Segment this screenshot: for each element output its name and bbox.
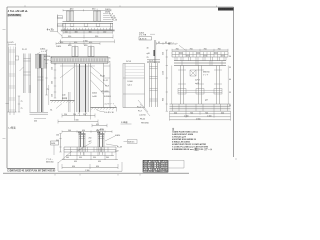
- svg-text:150: 150: [56, 135, 59, 137]
- svg-text:150: 150: [52, 94, 54, 97]
- svg-text:650: 650: [72, 166, 75, 168]
- svg-text:700: 700: [204, 48, 207, 50]
- svg-text:無収縮: 無収縮: [62, 97, 67, 100]
- svg-text:M24: M24: [97, 131, 100, 134]
- svg-text:55: 55: [229, 67, 231, 69]
- svg-text:2 900: 2 900: [83, 40, 88, 42]
- svg-text:GL: GL: [50, 110, 52, 112]
- svg-text:PL-28: PL-28: [117, 146, 122, 148]
- svg-text:450: 450: [96, 124, 99, 126]
- svg-text:450: 450: [60, 42, 63, 44]
- svg-text:1 400: 1 400: [184, 115, 189, 117]
- svg-text:L=450: L=450: [92, 96, 97, 98]
- svg-text:2 800: 2 800: [196, 118, 201, 120]
- svg-text:D-500: D-500: [128, 81, 133, 83]
- svg-text:350: 350: [79, 157, 82, 159]
- svg-text:M24×450: M24×450: [46, 161, 54, 164]
- svg-text:250: 250: [64, 114, 67, 116]
- svg-text:450: 450: [89, 42, 92, 44]
- svg-text:75: 75: [21, 101, 23, 103]
- svg-text:FB-44: FB-44: [140, 119, 145, 121]
- svg-text:2-PL9: 2-PL9: [195, 80, 200, 82]
- svg-text:1150: 1150: [163, 71, 165, 75]
- svg-text:55: 55: [229, 92, 231, 94]
- svg-text:300: 300: [89, 32, 92, 34]
- svg-text:300: 300: [106, 157, 109, 159]
- svg-text:65: 65: [165, 42, 167, 44]
- svg-text:90: 90: [229, 56, 231, 58]
- svg-text:250: 250: [83, 114, 86, 116]
- svg-text:250: 250: [73, 114, 76, 116]
- svg-text:450: 450: [74, 42, 77, 44]
- svg-text:650: 650: [96, 166, 99, 168]
- svg-text:L-50×50: L-50×50: [139, 114, 146, 117]
- svg-text:M24: M24: [78, 131, 81, 134]
- svg-text:300: 300: [75, 32, 78, 34]
- svg-text:J 7uL uM uM uL: J 7uL uM uM uL: [8, 11, 29, 13]
- svg-text:700: 700: [190, 48, 193, 50]
- svg-text:700: 700: [176, 48, 179, 50]
- svg-text:t=30: t=30: [62, 94, 65, 97]
- svg-text:PL-16: PL-16: [100, 76, 105, 78]
- svg-text:700: 700: [218, 48, 221, 50]
- svg-text:B-36: B-36: [51, 143, 55, 145]
- svg-text:1 400: 1 400: [207, 115, 212, 117]
- svg-text:75: 75: [21, 108, 23, 110]
- svg-text:φ18: φ18: [147, 53, 150, 55]
- svg-text:PL-16: PL-16: [112, 19, 117, 21]
- svg-text:PL-6: PL-6: [137, 107, 141, 109]
- svg-text:45: 45: [109, 62, 111, 64]
- svg-text:2-LG: 2-LG: [149, 61, 154, 63]
- svg-text:4-M24: 4-M24: [92, 93, 97, 95]
- svg-text:M30×60: M30×60: [203, 71, 210, 74]
- svg-text:950: 950: [68, 36, 71, 38]
- svg-text:700: 700: [190, 112, 193, 114]
- svg-text:(C2SB4BB1): (C2SB4BB1): [8, 14, 22, 17]
- svg-text:55: 55: [109, 58, 111, 60]
- svg-text:PL-12: PL-12: [22, 49, 27, 51]
- svg-text:350: 350: [163, 52, 165, 55]
- svg-text:150: 150: [52, 67, 54, 70]
- svg-text:350: 350: [93, 157, 96, 159]
- svg-text:TOT 183L 18 ALL 196: TOT 183L 18 ALL 196: [143, 170, 168, 173]
- svg-text:250: 250: [89, 138, 92, 140]
- svg-text:t=22: t=22: [115, 149, 119, 152]
- svg-text:03-1254-B: 03-1254-B: [219, 9, 234, 11]
- svg-text:コンクリート: コンクリート: [104, 103, 114, 106]
- svg-text:200: 200: [52, 81, 54, 84]
- svg-text:PL-9: PL-9: [138, 111, 142, 113]
- svg-text:25: 25: [147, 57, 149, 59]
- svg-text:450: 450: [34, 121, 37, 123]
- svg-text:HTB M16: HTB M16: [141, 123, 149, 125]
- svg-text:65: 65: [158, 42, 160, 44]
- svg-text:A-36 45: A-36 45: [140, 38, 147, 41]
- svg-text:FB-9: FB-9: [105, 86, 109, 88]
- svg-text:650: 650: [98, 161, 101, 163]
- svg-text:1 300: 1 300: [85, 170, 90, 172]
- svg-text:150: 150: [65, 32, 68, 34]
- svg-text:90: 90: [229, 105, 231, 107]
- svg-text:2-PL9: 2-PL9: [126, 61, 131, 63]
- svg-text:BH-300: BH-300: [44, 56, 50, 58]
- svg-text:t=4.5: t=4.5: [195, 82, 199, 85]
- svg-text:M20: M20: [84, 45, 88, 47]
- svg-text:4-M24: 4-M24: [115, 135, 120, 137]
- svg-text:700: 700: [205, 112, 208, 114]
- svg-text:φ27: φ27: [205, 100, 208, 102]
- svg-text:950: 950: [95, 36, 98, 38]
- svg-text:40: 40: [147, 48, 149, 50]
- svg-text:M20: M20: [68, 45, 72, 47]
- svg-text:φ27: φ27: [89, 141, 92, 143]
- svg-text:t=4.5: t=4.5: [128, 84, 132, 87]
- svg-text:SUS304: SUS304: [104, 96, 111, 98]
- svg-text:40: 40: [229, 79, 231, 81]
- svg-text:75: 75: [47, 89, 49, 91]
- svg-text:A36 45: A36 45: [128, 141, 134, 144]
- svg-text:350: 350: [221, 112, 224, 114]
- svg-text:350: 350: [174, 112, 177, 114]
- svg-text:2-M24: 2-M24: [56, 46, 61, 48]
- svg-text:500: 500: [68, 130, 71, 132]
- svg-text:1 000: 1 000: [74, 120, 79, 122]
- svg-text:650: 650: [74, 161, 77, 163]
- svg-text:300: 300: [66, 157, 69, 159]
- svg-text:800: 800: [163, 98, 165, 101]
- svg-text:150: 150: [103, 32, 106, 34]
